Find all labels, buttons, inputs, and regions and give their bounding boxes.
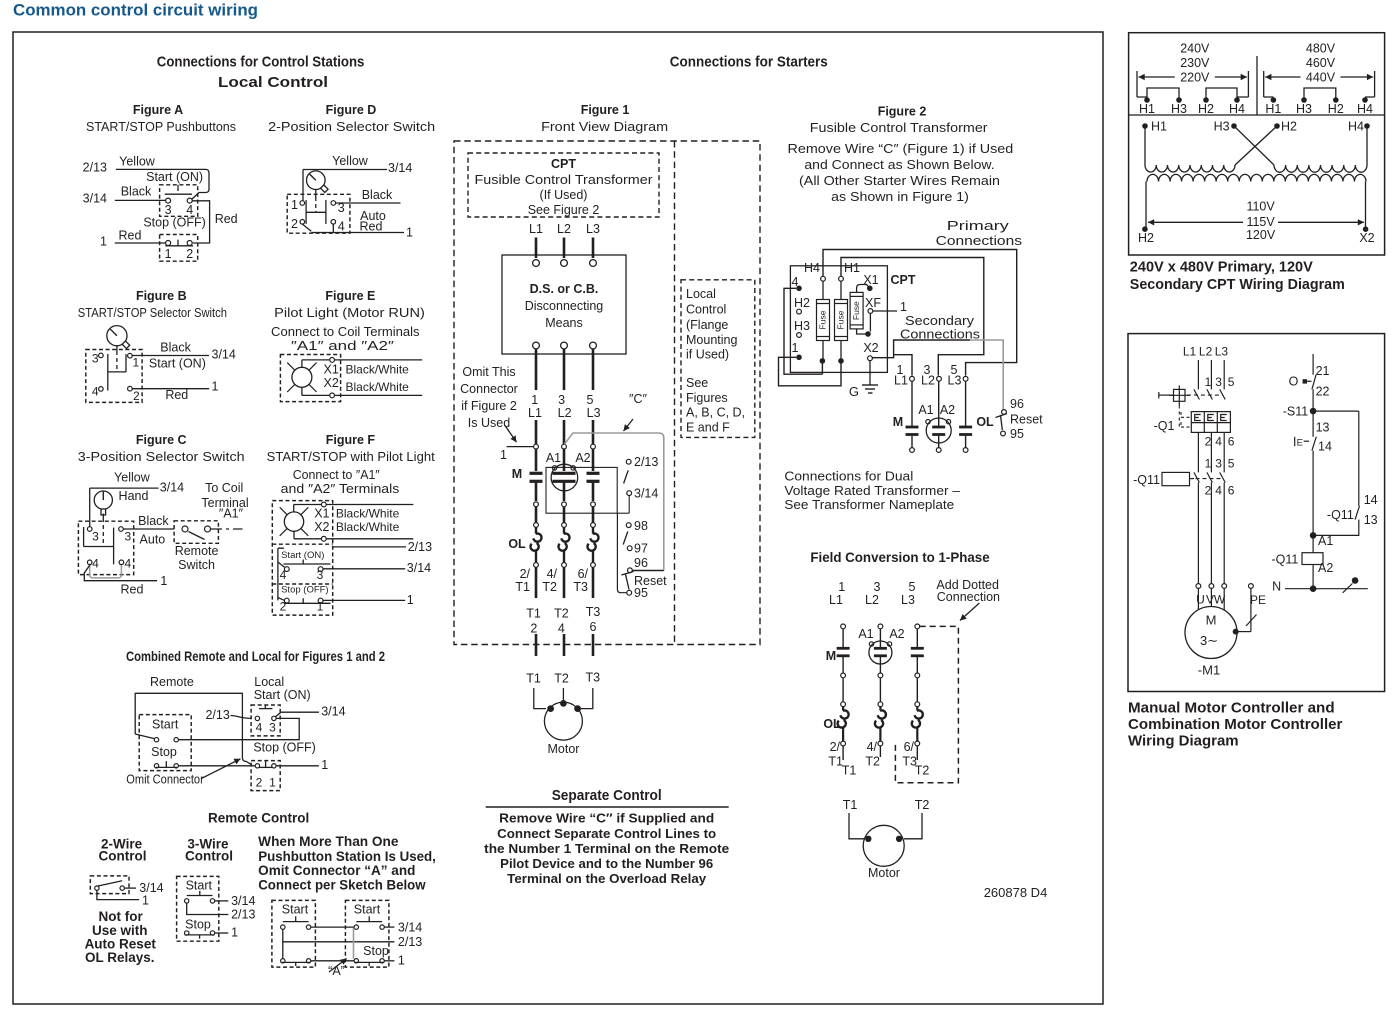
svg-text:START/STOP Pushbuttons: START/STOP Pushbuttons — [86, 120, 236, 134]
svg-text:START/STOP with Pilot Light: START/STOP with Pilot Light — [267, 450, 436, 464]
svg-text:(All Other Starter Wires Remai: (All Other Starter Wires Remain — [799, 174, 1000, 188]
svg-text:L2: L2 — [557, 222, 571, 236]
svg-text:4: 4 — [558, 622, 565, 636]
svg-text:2: 2 — [133, 389, 140, 403]
svg-text:Connections for Dual: Connections for Dual — [784, 469, 913, 483]
svg-text:230V: 230V — [1180, 56, 1210, 70]
svg-text:460V: 460V — [1306, 56, 1336, 70]
svg-text:Connections for Control Statio: Connections for Control Stations — [157, 54, 365, 71]
svg-text:Fuse: Fuse — [817, 310, 827, 329]
svg-text:O: O — [1289, 375, 1299, 389]
svg-text:Stop: Stop — [185, 917, 211, 931]
svg-text:X2: X2 — [314, 520, 329, 534]
svg-text:Connect to ″A1″: Connect to ″A1″ — [293, 468, 381, 482]
svg-text:″C″: ″C″ — [629, 392, 647, 406]
svg-text:Figures: Figures — [686, 391, 728, 405]
svg-text:6/: 6/ — [578, 567, 589, 581]
svg-text:1: 1 — [398, 954, 405, 968]
svg-text:-Q1: -Q1 — [1154, 419, 1175, 433]
svg-text:98: 98 — [634, 519, 648, 533]
svg-text:Local Control: Local Control — [218, 74, 328, 91]
svg-text:T2: T2 — [915, 764, 930, 778]
svg-text:4: 4 — [338, 220, 345, 234]
svg-text:Black/White: Black/White — [336, 520, 400, 534]
svg-text:Disconnecting: Disconnecting — [525, 299, 604, 313]
svg-text:H2: H2 — [1281, 120, 1297, 134]
svg-text:22: 22 — [1316, 385, 1330, 399]
svg-text:A1: A1 — [546, 451, 561, 465]
svg-text:3: 3 — [269, 721, 276, 735]
svg-text:Black/White: Black/White — [336, 507, 400, 521]
svg-text:Separate Control: Separate Control — [552, 787, 662, 804]
svg-text:Hand: Hand — [119, 489, 149, 503]
svg-text:1: 1 — [406, 226, 413, 240]
svg-text:3: 3 — [558, 393, 565, 407]
svg-text:Start: Start — [282, 902, 309, 916]
svg-text:Start (ON): Start (ON) — [149, 356, 206, 370]
svg-text:6: 6 — [590, 620, 597, 634]
svg-text:L3: L3 — [587, 406, 601, 420]
svg-text:H4: H4 — [1348, 120, 1364, 134]
svg-text:M: M — [826, 649, 836, 663]
svg-text:3-Position Selector Switch: 3-Position Selector Switch — [78, 450, 245, 464]
svg-text:Fuse: Fuse — [835, 310, 845, 329]
svg-text:-M1: -M1 — [1198, 663, 1220, 678]
svg-text:1: 1 — [212, 380, 219, 394]
svg-text:if Used): if Used) — [686, 348, 729, 362]
svg-text:Stop (OFF): Stop (OFF) — [143, 215, 206, 229]
svg-text:3∼: 3∼ — [1200, 633, 1218, 648]
svg-text:H1: H1 — [1151, 120, 1167, 134]
svg-text:X2: X2 — [1359, 231, 1374, 245]
svg-text:H3: H3 — [1296, 102, 1312, 116]
svg-text:START/STOP Selector Switch: START/STOP Selector Switch — [78, 306, 227, 320]
svg-text:and ″A2″ Terminals: and ″A2″ Terminals — [281, 482, 400, 496]
svg-text:E: E — [1297, 437, 1303, 448]
svg-text:Connect per Sketch Below: Connect per Sketch Below — [258, 878, 426, 893]
svg-text:A1: A1 — [1318, 534, 1333, 548]
svg-text:T3: T3 — [573, 580, 588, 594]
svg-text:96: 96 — [634, 556, 648, 570]
svg-text:if Figure 2: if Figure 2 — [461, 399, 517, 413]
svg-text:X1: X1 — [314, 507, 329, 521]
svg-text:Connect Separate Control Lines: Connect Separate Control Lines to — [497, 826, 716, 841]
svg-text:Remote: Remote — [175, 544, 219, 558]
svg-text:XF: XF — [865, 296, 881, 310]
svg-text:Figure E: Figure E — [325, 289, 375, 303]
svg-text:21: 21 — [1316, 364, 1330, 378]
svg-text:and Connect as Shown Below.: and Connect as Shown Below. — [804, 158, 994, 172]
svg-text:Remove Wire “C″ (Figure 1) if: Remove Wire “C″ (Figure 1) if Used — [788, 142, 1014, 156]
svg-text:Black/White: Black/White — [346, 362, 410, 376]
svg-text:Pilot Device and to the Number: Pilot Device and to the Number 96 — [500, 856, 713, 871]
svg-text:H3: H3 — [1214, 120, 1230, 134]
svg-text:1: 1 — [100, 234, 107, 248]
svg-text:Figure B: Figure B — [136, 289, 187, 303]
svg-text:T2: T2 — [542, 580, 557, 594]
svg-text:L1: L1 — [529, 222, 543, 236]
svg-text:1: 1 — [1205, 375, 1212, 389]
svg-text:Black/White: Black/White — [346, 380, 410, 394]
svg-text:3/14: 3/14 — [160, 481, 184, 495]
svg-text:240V: 240V — [1180, 42, 1210, 56]
svg-text:Figure D: Figure D — [326, 103, 377, 117]
svg-text:L1: L1 — [894, 374, 908, 388]
svg-text:T1: T1 — [843, 798, 858, 812]
svg-text:-S11: -S11 — [1283, 405, 1309, 419]
svg-text:Start (ON): Start (ON) — [146, 170, 203, 184]
svg-text:Start (ON): Start (ON) — [281, 550, 324, 561]
svg-text:L2: L2 — [865, 593, 879, 607]
svg-text:OL: OL — [823, 717, 841, 731]
svg-text:120V: 120V — [1246, 228, 1276, 242]
svg-text:1: 1 — [1205, 457, 1212, 471]
svg-text:L2: L2 — [921, 374, 935, 388]
svg-text:240V x 480V Primary, 120V: 240V x 480V Primary, 120V — [1130, 259, 1313, 276]
svg-text:H4: H4 — [1357, 102, 1373, 116]
svg-text:Figure F: Figure F — [326, 433, 376, 447]
svg-text:Stop (OFF): Stop (OFF) — [253, 741, 316, 755]
svg-text:Yellow: Yellow — [119, 155, 156, 169]
svg-text:3/14: 3/14 — [83, 192, 107, 206]
svg-text:Omit Connector “A” and: Omit Connector “A” and — [258, 863, 415, 878]
svg-text:Yellow: Yellow — [332, 154, 369, 168]
svg-text:6: 6 — [1228, 435, 1235, 449]
svg-text:Secondary: Secondary — [905, 314, 975, 328]
svg-text:L2: L2 — [558, 406, 572, 420]
svg-text:Black: Black — [362, 188, 393, 202]
svg-text:Figure C: Figure C — [136, 433, 187, 447]
svg-text:Remote: Remote — [150, 675, 194, 689]
svg-text:Motor: Motor — [868, 866, 900, 880]
svg-text:Red: Red — [215, 212, 238, 226]
svg-text:Connect to Coil Terminals: Connect to Coil Terminals — [271, 325, 420, 339]
svg-text:CPT: CPT — [551, 157, 576, 171]
svg-text:1: 1 — [792, 341, 799, 355]
svg-text:Omit Connector: Omit Connector — [126, 773, 204, 787]
svg-text:T3: T3 — [586, 605, 601, 619]
svg-text:Start: Start — [186, 879, 213, 893]
svg-text:Red: Red — [165, 388, 188, 402]
svg-text:2/13: 2/13 — [408, 540, 432, 554]
svg-text:480V: 480V — [1306, 42, 1336, 56]
svg-text:T1: T1 — [526, 672, 541, 686]
svg-text:1: 1 — [160, 574, 167, 588]
svg-text:Connections for Starters: Connections for Starters — [670, 54, 828, 71]
svg-text:-Q11: -Q11 — [1327, 508, 1354, 522]
svg-text:Field Conversion to 1-Phase: Field Conversion to 1-Phase — [810, 549, 990, 565]
svg-text:Figure 1: Figure 1 — [581, 103, 630, 117]
svg-text:OL Relays.: OL Relays. — [85, 950, 155, 965]
svg-text:Not for: Not for — [98, 909, 143, 924]
svg-text:Common control circuit wiring: Common control circuit wiring — [13, 2, 258, 20]
svg-text:Manual Motor Controller and: Manual Motor Controller and — [1128, 700, 1335, 717]
svg-text:A1: A1 — [918, 403, 933, 417]
svg-text:H2: H2 — [1138, 231, 1154, 245]
svg-text:2/13: 2/13 — [205, 708, 229, 722]
svg-text:H4: H4 — [804, 261, 820, 275]
svg-text:97: 97 — [634, 542, 648, 556]
svg-text:96: 96 — [1010, 397, 1024, 411]
svg-text:(If Used): (If Used) — [540, 188, 588, 202]
svg-text:95: 95 — [1010, 427, 1024, 441]
svg-text:Mounting: Mounting — [686, 333, 737, 347]
svg-text:1: 1 — [900, 300, 907, 314]
svg-text:Stop: Stop — [151, 745, 177, 759]
svg-text:2: 2 — [280, 600, 287, 614]
svg-text:L1: L1 — [528, 406, 542, 420]
svg-text:Switch: Switch — [178, 558, 215, 572]
svg-text:Red: Red — [121, 583, 144, 597]
svg-text:L1: L1 — [1183, 345, 1197, 359]
svg-text:5: 5 — [1228, 457, 1235, 471]
svg-text:Figure 2: Figure 2 — [878, 105, 927, 119]
svg-text:Wiring Diagram: Wiring Diagram — [1128, 733, 1239, 750]
svg-text:2/13: 2/13 — [83, 161, 107, 175]
svg-text:3/14: 3/14 — [407, 561, 431, 575]
svg-text:6: 6 — [1228, 484, 1235, 498]
svg-text:260878 D4: 260878 D4 — [984, 885, 1048, 900]
svg-text:H2: H2 — [794, 296, 810, 310]
svg-text:M: M — [1206, 613, 1217, 628]
svg-text:Control: Control — [686, 303, 726, 317]
svg-text:2: 2 — [530, 622, 537, 636]
svg-text:V: V — [1206, 593, 1214, 607]
svg-text:PE: PE — [1250, 593, 1266, 607]
svg-text:3/14: 3/14 — [398, 921, 422, 935]
svg-text:2-Position Selector Switch: 2-Position Selector Switch — [268, 120, 435, 134]
svg-text:4: 4 — [1215, 435, 1222, 449]
svg-text:2: 2 — [291, 217, 298, 231]
svg-text:D.S. or C.B.: D.S. or C.B. — [530, 282, 599, 296]
svg-text:See Figure 2: See Figure 2 — [528, 203, 600, 217]
svg-text:1: 1 — [317, 600, 324, 614]
svg-text:4: 4 — [256, 721, 263, 735]
svg-text:T1: T1 — [526, 607, 541, 621]
svg-text:T2: T2 — [554, 672, 569, 686]
svg-text:X1: X1 — [324, 362, 339, 376]
svg-text:2/: 2/ — [520, 567, 531, 581]
svg-text:Means: Means — [545, 316, 583, 330]
svg-text:(Flange: (Flange — [686, 318, 728, 332]
svg-text:A1: A1 — [858, 627, 873, 641]
svg-text:2: 2 — [256, 776, 263, 790]
svg-text:L3: L3 — [1215, 345, 1229, 359]
svg-text:3: 3 — [124, 530, 131, 544]
svg-text:5: 5 — [587, 393, 594, 407]
svg-text:4: 4 — [124, 557, 131, 571]
svg-text:A2: A2 — [575, 451, 590, 465]
svg-text:Connections: Connections — [936, 234, 1022, 248]
svg-text:Black: Black — [160, 341, 191, 355]
svg-text:A, B, C, D,: A, B, C, D, — [686, 406, 745, 420]
svg-text:4: 4 — [280, 568, 287, 582]
svg-text:Red: Red — [360, 220, 383, 234]
svg-text:115V: 115V — [1246, 215, 1275, 229]
svg-text:L1: L1 — [829, 593, 843, 607]
svg-text:T2: T2 — [554, 607, 569, 621]
svg-text:N: N — [1272, 579, 1281, 593]
svg-text:H3: H3 — [794, 319, 810, 333]
svg-text:1: 1 — [291, 198, 298, 212]
svg-text:1: 1 — [500, 448, 507, 462]
svg-text:13: 13 — [1316, 421, 1330, 435]
svg-text:4: 4 — [1215, 484, 1222, 498]
svg-text:Control: Control — [185, 849, 233, 864]
svg-text:2/13: 2/13 — [634, 455, 658, 469]
svg-text:Start: Start — [152, 717, 179, 731]
svg-text:A2: A2 — [889, 627, 904, 641]
svg-text:3: 3 — [92, 530, 99, 544]
svg-text:1: 1 — [231, 926, 238, 940]
svg-text:OL: OL — [508, 537, 526, 551]
svg-text:H1: H1 — [1139, 102, 1155, 116]
svg-text:Combination Motor Controller: Combination Motor Controller — [1128, 716, 1343, 733]
svg-text:Terminal on the Overload Relay: Terminal on the Overload Relay — [507, 871, 707, 886]
svg-text:Secondary CPT Wiring Diagram: Secondary CPT Wiring Diagram — [1130, 276, 1345, 293]
svg-text:1: 1 — [838, 580, 845, 594]
svg-text:2: 2 — [186, 247, 193, 261]
svg-text:H3: H3 — [1171, 102, 1187, 116]
svg-text:3: 3 — [1215, 457, 1222, 471]
svg-text:L3: L3 — [948, 374, 962, 388]
svg-text:H4: H4 — [1229, 102, 1245, 116]
svg-text:U: U — [1196, 593, 1205, 607]
svg-text:3: 3 — [317, 568, 324, 582]
svg-text:Fuse: Fuse — [851, 301, 861, 320]
svg-text:T1: T1 — [842, 764, 857, 778]
svg-text:Red: Red — [119, 229, 142, 243]
svg-text:Control: Control — [99, 849, 147, 864]
svg-text:X2: X2 — [324, 376, 339, 390]
svg-text:L3: L3 — [901, 593, 915, 607]
svg-text:Start (ON): Start (ON) — [254, 688, 311, 702]
svg-text:4: 4 — [92, 384, 99, 398]
svg-text:3/14: 3/14 — [321, 705, 345, 719]
svg-text:13: 13 — [1364, 513, 1378, 527]
svg-text:3: 3 — [1215, 375, 1222, 389]
svg-text:E and F: E and F — [686, 421, 730, 435]
svg-text:Reset: Reset — [1010, 413, 1043, 427]
svg-text:as Shown in Figure 1): as Shown in Figure 1) — [831, 190, 969, 204]
svg-text:2/13: 2/13 — [231, 908, 255, 922]
svg-text:2: 2 — [1205, 435, 1212, 449]
svg-text:440V: 440V — [1306, 70, 1336, 84]
svg-text:H2: H2 — [1198, 102, 1214, 116]
svg-text:Remove Wire “C″ if Supplied an: Remove Wire “C″ if Supplied and — [499, 811, 714, 826]
svg-text:OL: OL — [976, 415, 994, 429]
svg-text:Pilot Light (Motor RUN): Pilot Light (Motor RUN) — [274, 306, 425, 320]
svg-text:3/14: 3/14 — [634, 487, 658, 501]
svg-text:1: 1 — [269, 776, 276, 790]
svg-text:When More Than One: When More Than One — [258, 834, 399, 849]
svg-text:″A1″: ″A1″ — [219, 506, 244, 520]
svg-text:3/14: 3/14 — [231, 894, 255, 908]
svg-text:″A1″ and ″A2″: ″A1″ and ″A2″ — [291, 339, 395, 353]
svg-text:1: 1 — [407, 593, 414, 607]
svg-text:6/: 6/ — [904, 740, 915, 754]
svg-text:Connection: Connection — [937, 590, 1000, 604]
svg-text:Fusible Control Transformer: Fusible Control Transformer — [810, 121, 988, 135]
svg-text:Local: Local — [686, 287, 716, 301]
svg-text:the Number 1 Terminal on the R: the Number 1 Terminal on the Remote — [484, 841, 729, 856]
svg-text:Primary: Primary — [947, 219, 1010, 233]
svg-text:4: 4 — [92, 557, 99, 571]
svg-text:See: See — [686, 376, 708, 390]
svg-text:See Transformer Nameplate: See Transformer Nameplate — [784, 498, 954, 512]
svg-text:M: M — [893, 415, 903, 429]
svg-text:5: 5 — [909, 580, 916, 594]
svg-text:95: 95 — [634, 586, 648, 600]
svg-text:Connector: Connector — [460, 382, 518, 396]
svg-text:3: 3 — [874, 580, 881, 594]
svg-text:3/14: 3/14 — [388, 161, 412, 175]
svg-text:A2: A2 — [940, 403, 955, 417]
svg-text:14: 14 — [1364, 493, 1378, 507]
svg-text:Omit This: Omit This — [462, 365, 515, 379]
svg-text:Stop (OFF): Stop (OFF) — [281, 585, 329, 596]
svg-text:Auto: Auto — [140, 532, 166, 546]
svg-text:1: 1 — [142, 894, 149, 908]
svg-text:Black: Black — [121, 184, 152, 198]
svg-text:Black: Black — [138, 514, 169, 528]
svg-text:T2: T2 — [915, 798, 930, 812]
svg-text:220V: 220V — [1180, 70, 1210, 84]
svg-text:Remote Control: Remote Control — [208, 809, 309, 825]
svg-text:H1: H1 — [844, 261, 860, 275]
svg-text:1: 1 — [133, 356, 140, 370]
svg-text:3: 3 — [92, 352, 99, 366]
svg-text:Figure A: Figure A — [133, 103, 183, 117]
svg-text:Stop: Stop — [363, 944, 389, 958]
svg-text:2/13: 2/13 — [398, 935, 422, 949]
svg-text:T3: T3 — [586, 671, 601, 685]
svg-text:Start: Start — [354, 902, 381, 916]
svg-text:Local: Local — [254, 675, 284, 689]
svg-text:A2: A2 — [1318, 561, 1333, 575]
svg-text:3/14: 3/14 — [212, 348, 236, 362]
svg-text:110V: 110V — [1246, 200, 1275, 214]
svg-text:2: 2 — [1205, 484, 1212, 498]
svg-text:H2: H2 — [1328, 102, 1344, 116]
svg-text:T1: T1 — [515, 580, 530, 594]
svg-text:T2: T2 — [865, 755, 880, 769]
svg-text:Pushbutton Station Is Used,: Pushbutton Station Is Used, — [258, 849, 436, 864]
svg-text:Combined Remote and Local for: Combined Remote and Local for Figures 1 … — [126, 648, 385, 664]
svg-text:4/: 4/ — [867, 740, 878, 754]
svg-text:Is Used: Is Used — [468, 416, 510, 430]
svg-text:1: 1 — [321, 758, 328, 772]
svg-text:CPT: CPT — [891, 273, 916, 287]
svg-text:Voltage Rated Transformer –: Voltage Rated Transformer – — [784, 484, 960, 498]
svg-text:G: G — [849, 384, 859, 399]
svg-text:H1: H1 — [1265, 102, 1281, 116]
svg-text:Yellow: Yellow — [114, 470, 151, 484]
svg-text:14: 14 — [1318, 440, 1332, 454]
svg-text:-Q11: -Q11 — [1133, 473, 1160, 487]
svg-text:X2: X2 — [863, 341, 878, 355]
svg-text:5: 5 — [1228, 375, 1235, 389]
svg-text:M: M — [512, 467, 522, 481]
svg-text:1: 1 — [165, 247, 172, 261]
svg-text:Front View Diagram: Front View Diagram — [541, 120, 668, 134]
svg-text:1: 1 — [531, 393, 538, 407]
svg-text:L2: L2 — [1199, 345, 1213, 359]
svg-text:L3: L3 — [586, 222, 600, 236]
svg-text:To Coil: To Coil — [205, 481, 243, 495]
svg-text:2/: 2/ — [830, 740, 841, 754]
svg-text:-Q11: -Q11 — [1272, 552, 1299, 566]
